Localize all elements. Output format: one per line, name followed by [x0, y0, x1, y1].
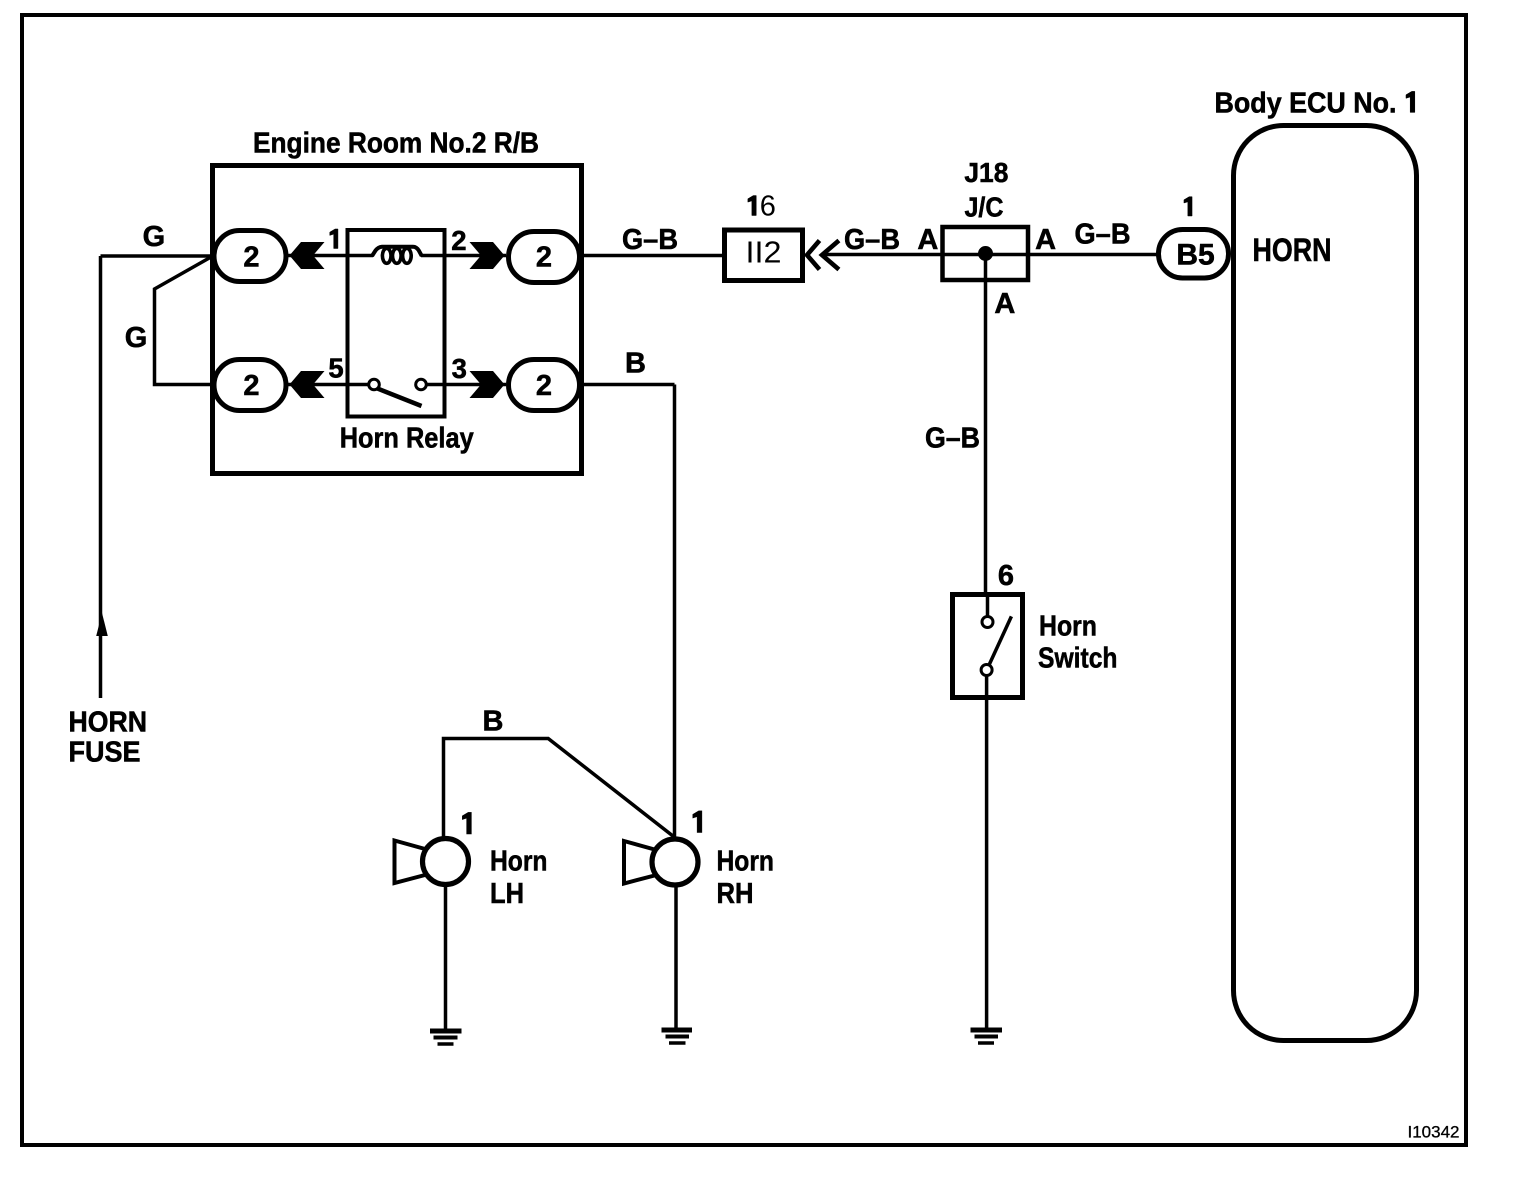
svg-text:Switch: Switch	[1038, 643, 1118, 675]
svg-text:2: 2	[243, 242, 259, 274]
svg-text:5: 5	[328, 353, 343, 384]
svg-text:2: 2	[243, 370, 259, 402]
svg-text:A: A	[917, 224, 938, 256]
svg-text:I10342: I10342	[1408, 1124, 1460, 1142]
svg-text:B: B	[483, 706, 504, 738]
svg-text:2: 2	[536, 242, 552, 274]
svg-text:B5: B5	[1176, 239, 1214, 272]
svg-text:6: 6	[760, 191, 776, 223]
svg-text:2: 2	[536, 370, 552, 402]
svg-text:J/C: J/C	[965, 191, 1004, 222]
svg-text:HORN: HORN	[1253, 232, 1332, 268]
svg-text:Horn Relay: Horn Relay	[340, 423, 474, 455]
svg-text:Horn: Horn	[490, 846, 548, 878]
svg-text:G–B: G–B	[844, 224, 900, 256]
svg-text:II2: II2	[746, 235, 782, 270]
svg-text:A: A	[994, 288, 1015, 320]
svg-text:RH: RH	[717, 878, 754, 910]
svg-text:B: B	[625, 348, 646, 380]
svg-text:G–B: G–B	[925, 423, 980, 455]
svg-text:G: G	[143, 221, 166, 253]
svg-text:6: 6	[998, 560, 1014, 592]
svg-text:LH: LH	[490, 878, 524, 910]
svg-text:FUSE: FUSE	[69, 737, 141, 769]
svg-text:Body ECU No.: Body ECU No.	[1215, 87, 1397, 119]
svg-text:3: 3	[452, 353, 467, 384]
svg-text:G–B: G–B	[1075, 219, 1131, 251]
svg-text:2: 2	[451, 225, 466, 256]
svg-text:Engine Room No.2 R/B: Engine Room No.2 R/B	[253, 128, 539, 160]
svg-text:G–B: G–B	[622, 224, 678, 256]
svg-text:A: A	[1035, 224, 1056, 256]
svg-text:J18: J18	[964, 157, 1008, 188]
svg-text:Horn: Horn	[717, 846, 775, 878]
svg-text:HORN: HORN	[69, 707, 148, 739]
svg-text:Horn: Horn	[1039, 611, 1097, 643]
svg-text:G: G	[125, 322, 148, 354]
